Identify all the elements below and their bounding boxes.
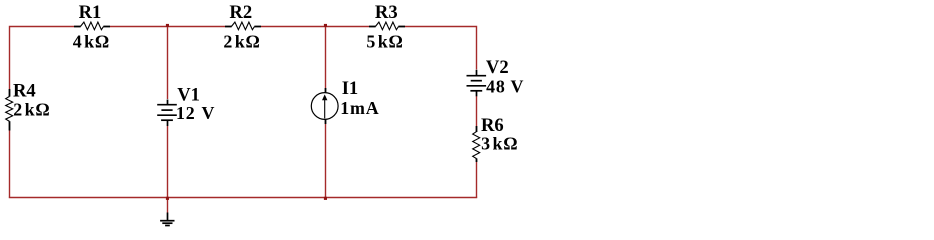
- arrowhead of I1: [322, 94, 327, 100]
- wire: left rail below R4: [9, 131, 11, 198]
- wire: I1 branch bottom: [325, 124, 327, 198]
- current source I1: [311, 88, 338, 124]
- svg-text:3kΩ: 3kΩ: [481, 134, 518, 154]
- svg-text:R1: R1: [79, 2, 102, 23]
- ground: [160, 213, 174, 226]
- wire: V1 branch top: [167, 27, 169, 100]
- svg-text:R2: R2: [229, 2, 252, 23]
- wire: top rail between R1 and R2: [110, 26, 225, 28]
- svg-text:V2: V2: [486, 57, 509, 78]
- svg-text:I1: I1: [342, 78, 359, 99]
- wire: top rail between R2 and R3: [261, 26, 369, 28]
- svg-text:2kΩ: 2kΩ: [13, 99, 50, 119]
- wire: I1 branch top: [325, 27, 327, 89]
- svg-text:2kΩ: 2kΩ: [223, 31, 260, 51]
- wire: bottom rail: [9, 197, 477, 199]
- resistor R6: [473, 126, 480, 162]
- wire: top rail left segment + left rail top: [10, 27, 75, 90]
- node junction V1 top: [166, 24, 169, 27]
- node junction V1 bottom: [166, 197, 169, 200]
- svg-text:48 V: 48 V: [486, 76, 524, 96]
- resistor R3: [369, 22, 405, 30]
- wire: top rail right segment to V2 branch corner: [405, 27, 477, 70]
- resistor R2: [225, 22, 261, 30]
- node junction I1 top: [324, 24, 327, 27]
- svg-text:12 V: 12 V: [176, 103, 215, 123]
- svg-text:1mA: 1mA: [340, 98, 379, 118]
- node junction I1 bottom: [324, 197, 327, 200]
- svg-text:R3: R3: [375, 2, 398, 23]
- resistor R1: [74, 22, 110, 30]
- resistor R4: [6, 89, 13, 131]
- wire: V1 branch bottom: [167, 126, 169, 198]
- wire: ground stub: [167, 198, 169, 213]
- svg-text:4kΩ: 4kΩ: [73, 31, 110, 51]
- svg-text:5kΩ: 5kΩ: [366, 31, 403, 51]
- voltage source V2: [467, 70, 487, 97]
- wire: V2 to R6: [476, 96, 478, 126]
- voltage source V1: [157, 100, 177, 127]
- wire: R6 to bottom rail: [476, 162, 478, 198]
